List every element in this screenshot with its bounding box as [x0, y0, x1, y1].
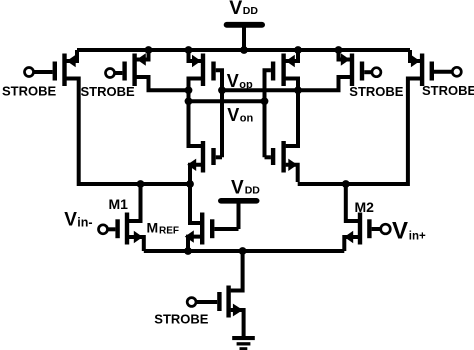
terminal circle STROBE input of T1 [25, 68, 34, 77]
transistor T7 channel [226, 286, 230, 318]
transistor T5 channel [350, 54, 354, 87]
transistor M1 input NMOS: gate bar [115, 219, 119, 238]
junction dot Vop right column [294, 86, 302, 94]
svg-text:M2: M2 [355, 199, 375, 215]
label VDD (middle) [231, 177, 260, 198]
terminal circle STROBE input of T7 [187, 298, 196, 307]
wire top VDD rail [77, 48, 410, 52]
svg-text:V: V [392, 217, 408, 244]
wire MREF gate to middle VDD [214, 227, 238, 231]
transistor MREF reference NMOS: gate bar [210, 219, 214, 238]
label Vop [227, 71, 253, 91]
wire T1 source to VDD rail [65, 50, 77, 61]
transistor T4 cross-coupled PMOS (right): gate bar [271, 62, 275, 81]
svg-text:STROBE: STROBE [349, 84, 404, 99]
svg-text:in+: in+ [409, 231, 426, 243]
svg-text:V: V [64, 209, 77, 230]
terminal circle STROBE input of T2 [106, 69, 115, 78]
svg-text:REF: REF [159, 226, 179, 237]
transistor T3 channel [201, 54, 205, 87]
transistor T1 strobe PMOS (far left): gate bar [53, 62, 57, 81]
label M2 [355, 199, 375, 215]
terminal circle STROBE input of T5 [372, 68, 381, 77]
transistor T2 gate lead [114, 71, 122, 75]
wire M2 drain up to node Y [346, 186, 358, 221]
transistor T7 tail strobe NMOS: gate bar [217, 292, 221, 311]
svg-text:V: V [229, 0, 242, 19]
wire node X rail (left) [79, 182, 190, 186]
junction dot MREF source on tail rail [184, 247, 192, 255]
label M1 [109, 196, 129, 212]
svg-text:STROBE: STROBE [2, 83, 57, 98]
wire T7 drain up to tail rail [231, 251, 243, 291]
junction dot M1 drain on node X [137, 180, 145, 188]
wire T4 source from VDD rail [284, 50, 298, 61]
arrow source of T1 [67, 55, 76, 67]
junction dot Von left [185, 97, 193, 105]
svg-text:STROBE: STROBE [81, 84, 136, 99]
wire node Y rail (right) [298, 182, 408, 186]
junction dot Vop-left column [185, 86, 193, 94]
label VDD (top) [229, 0, 258, 19]
power symbol VDD (middle supply bar) [218, 198, 260, 229]
transistor M2 input NMOS: gate bar [367, 219, 371, 238]
transistor M1 channel [125, 213, 129, 245]
svg-text:V: V [227, 71, 239, 91]
label STROBE (T5) [349, 84, 404, 99]
arrow source of T7 [233, 304, 243, 317]
wire T2 drain to node Von [135, 77, 189, 90]
wire M1 drain up to node X [129, 186, 141, 221]
wire M4 source to node Y [286, 165, 298, 182]
arrow source of T5 [341, 53, 350, 65]
arrow source of T3 [192, 55, 201, 67]
transistor M4 channel [281, 141, 285, 173]
junction dot node X at M3/MREF column [186, 180, 194, 188]
junction dot Vop at cross column [218, 86, 226, 94]
transistor T2 channel [132, 54, 136, 87]
transistor T1 channel [62, 54, 66, 87]
arrow source of M3 [187, 159, 196, 171]
arrow source of M4 [288, 159, 297, 171]
wire T4 gate to Von column [265, 70, 271, 157]
junction dot M2 drain on node Y [342, 180, 350, 188]
wire M3 source to node X [190, 165, 201, 223]
svg-text:STROBE: STROBE [154, 312, 209, 327]
junction dot tail column [239, 247, 247, 255]
label Vin+ [392, 217, 426, 244]
label MREF [147, 220, 180, 237]
junction dot T5 source on rail [335, 46, 343, 54]
arrow source of M2 [344, 231, 353, 243]
wire node Von horizontal [189, 99, 265, 103]
transistor M3 channel [201, 141, 205, 173]
svg-text:DD: DD [243, 5, 259, 17]
transistor T5 gate lead [364, 70, 372, 74]
svg-text:op: op [239, 79, 253, 91]
terminal circle Vin- input [99, 225, 108, 234]
wire T3 source from VDD rail [189, 50, 203, 61]
transistor T6 gate lead [434, 70, 453, 74]
wire node Vop horizontal [222, 88, 298, 92]
power symbol VDD (top supply bar) [224, 22, 265, 50]
label STROBE (T6) [422, 83, 474, 98]
svg-text:M: M [147, 220, 159, 236]
svg-text:STROBE: STROBE [422, 83, 474, 98]
wire T2 source to VDD rail [135, 50, 149, 60]
wire T5 source to VDD rail [339, 50, 352, 60]
transistor M2 gate lead [372, 227, 381, 231]
arrow source of M1 [134, 231, 143, 243]
wire tail common-source rail [144, 249, 344, 253]
arrow source of T4 [286, 55, 295, 67]
transistor T7 gate lead [196, 300, 217, 304]
transistor T6 strobe PMOS (far right): gate bar [430, 62, 434, 81]
svg-text:V: V [231, 177, 244, 198]
arrow source of T2 [137, 53, 146, 65]
transistor MREF channel [200, 213, 204, 245]
label Von [227, 105, 253, 125]
junction dot T2 source on rail [145, 46, 153, 54]
junction dot T3 source on rail [185, 46, 193, 54]
transistor T2 strobe PMOS (inner left): gate bar [122, 62, 126, 81]
terminal circle Vin+ input [381, 224, 391, 234]
wire T7 source down to ground [231, 310, 244, 336]
transistor T4 channel [281, 54, 285, 87]
svg-text:in-: in- [77, 216, 92, 230]
label Vin- [64, 209, 92, 230]
junction dot T4 source on rail [294, 46, 302, 54]
label STROBE (T2) [81, 84, 136, 99]
svg-text:M1: M1 [109, 196, 129, 212]
wire M4 gate lead [265, 155, 271, 159]
transistor M3 cross-coupled NMOS (left): gate bar [211, 148, 215, 165]
transistor T5 strobe PMOS (inner right): gate bar [360, 62, 364, 81]
wire M2 source down to tail rail [344, 237, 358, 251]
svg-text:DD: DD [245, 184, 261, 196]
arrow source of T6 [411, 55, 420, 67]
svg-text:on: on [240, 113, 254, 125]
wire T6 drain down to node Y rail [408, 79, 422, 187]
wire MREF source down to tail rail [188, 237, 200, 251]
wire T3 drain down to Von column [189, 79, 203, 147]
wire M1 source down to tail rail [129, 237, 144, 251]
transistor T3 cross-coupled PMOS (left): gate bar [211, 62, 215, 81]
svg-text:V: V [227, 105, 239, 125]
terminal circle STROBE input of T6 [452, 67, 461, 76]
wire T6 source to VDD rail [410, 50, 422, 61]
transistor M4 cross-coupled NMOS (right): gate bar [271, 148, 275, 165]
label STROBE (T1) [2, 83, 57, 98]
wire T3 gate to Vop column [216, 70, 222, 157]
wire M3 gate lead [216, 155, 222, 159]
label STROBE (tail) [154, 312, 209, 327]
transistor T6 channel [420, 54, 424, 87]
transistor M2 channel [358, 213, 362, 245]
wire T5 drain to node Vop [298, 77, 352, 90]
transistor T1 gate lead [33, 70, 52, 74]
wire T1 drain down to node X rail [65, 79, 79, 187]
ground symbol [232, 336, 255, 350]
arrow source of MREF [185, 230, 194, 242]
wire T4 drain down to Vop column [284, 79, 298, 147]
transistor M1 gate lead [108, 227, 116, 231]
junction dot VDD stub on rail [240, 46, 248, 54]
junction dot Von right column [261, 97, 269, 105]
